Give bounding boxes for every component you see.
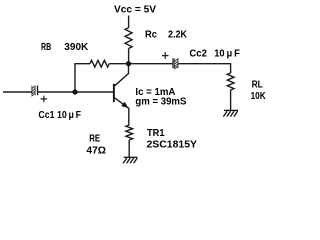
svg-text:2SC1815Y: 2SC1815Y — [147, 139, 198, 151]
svg-text:TR1: TR1 — [147, 127, 165, 139]
svg-text:gm = 39mS: gm = 39mS — [135, 96, 186, 108]
svg-text:RB: RB — [41, 41, 51, 53]
svg-text:Cc1 10 μ F: Cc1 10 μ F — [38, 109, 81, 121]
svg-text:Rc: Rc — [145, 29, 157, 41]
svg-text:47Ω: 47Ω — [86, 144, 106, 156]
svg-text:10K: 10K — [251, 90, 266, 102]
svg-text:Cc2: Cc2 — [189, 48, 207, 60]
svg-text:2.2K: 2.2K — [168, 29, 187, 41]
svg-text:Vcc = 5V: Vcc = 5V — [114, 4, 156, 16]
svg-text:10 μ F: 10 μ F — [214, 48, 240, 60]
svg-text:390K: 390K — [64, 41, 88, 53]
svg-text:RE: RE — [89, 133, 100, 145]
svg-text:RL: RL — [252, 79, 264, 91]
